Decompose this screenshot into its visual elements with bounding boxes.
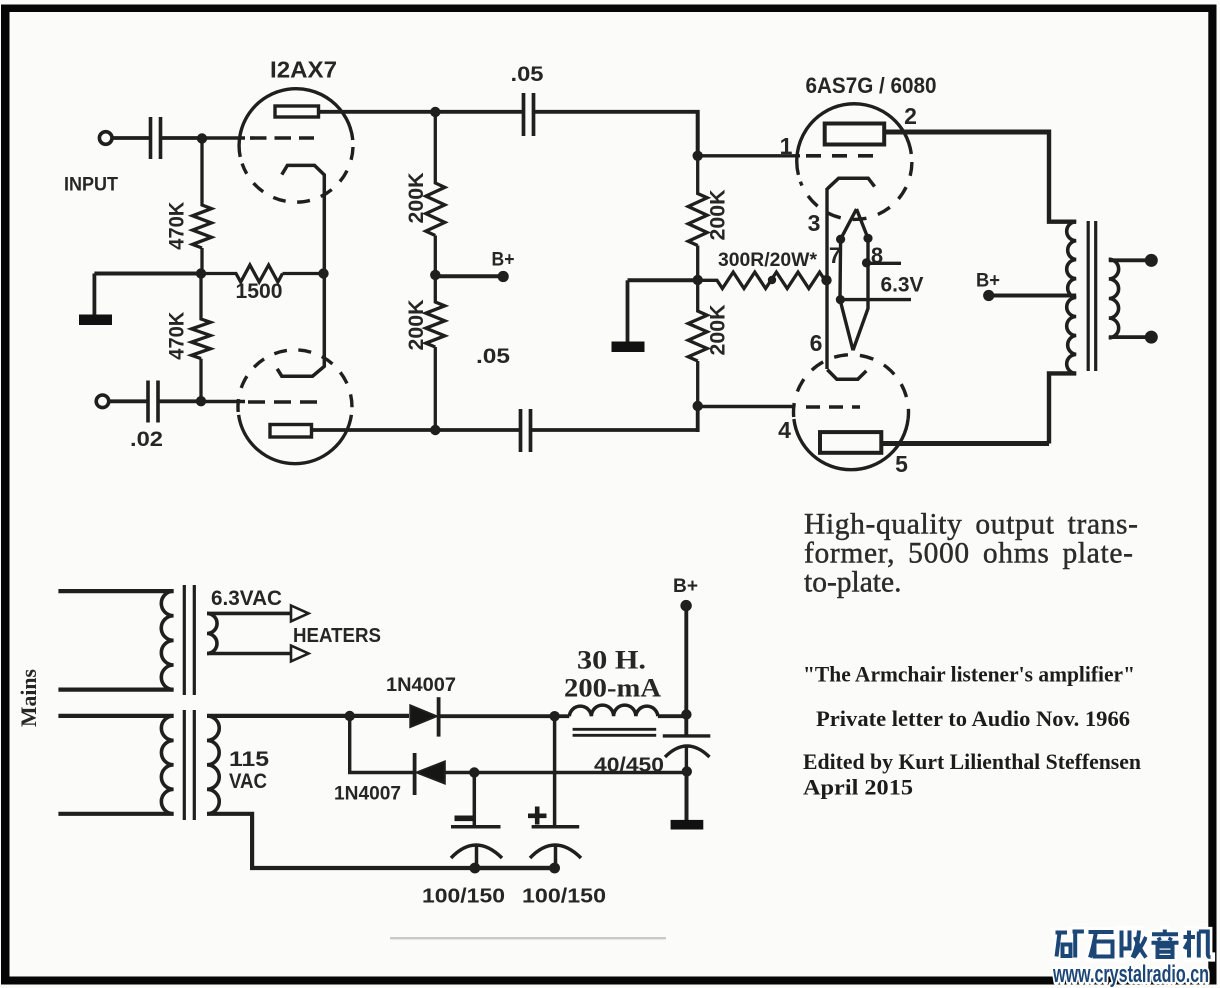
node cathode V1 junction	[318, 268, 328, 278]
resistor R2 1500 (cathode bias)	[201, 265, 324, 282]
svg-text:1: 1	[780, 133, 793, 159]
value label 200K (R6)	[707, 190, 730, 241]
pin label 4	[778, 417, 791, 443]
wire node to choke	[555, 714, 570, 718]
svg-text:B+: B+	[976, 271, 1000, 292]
label B+ (supply)	[673, 575, 698, 597]
wire C3 to corner	[535, 110, 700, 114]
note: amplifier title and credits	[803, 662, 1141, 800]
grid V1A dashed	[250, 136, 314, 140]
wire C4 to corner	[532, 428, 700, 432]
svg-text:6.3VAC: 6.3VAC	[211, 587, 282, 610]
svg-text:200K: 200K	[707, 305, 730, 356]
svg-text:200K: 200K	[707, 190, 730, 241]
svg-text:INPUT: INPUT	[64, 174, 118, 196]
label 115	[229, 748, 269, 771]
wire corner down to grid node V2A	[696, 110, 700, 156]
capacitor C1 .02 coupling (upper input)	[151, 117, 161, 159]
svg-text:5: 5	[895, 451, 908, 477]
svg-text:1N4007: 1N4007	[334, 784, 401, 805]
node C5 top junction	[469, 767, 479, 777]
node mid 300R blob	[768, 276, 776, 284]
value label .05 (upper C3)	[511, 62, 544, 86]
value label 470K (R1)	[166, 202, 189, 250]
wire heater lead top	[207, 612, 291, 616]
node C5 bottom junction	[470, 863, 481, 874]
value label 1500 (R2)	[236, 280, 283, 303]
wire mains lead T2 top	[58, 589, 173, 593]
capacitor C7 40/450	[663, 736, 711, 771]
wire C1 to grid node	[162, 136, 200, 140]
wire cathode junction to V2B (pin 6)	[825, 280, 828, 369]
cathode V1A	[282, 165, 325, 273]
triode V2B (6AS7G lower half) envelope and plate	[794, 355, 909, 470]
value label 300R/20W*	[718, 250, 818, 271]
svg-text:I2AX7: I2AX7	[270, 57, 337, 83]
resistor R8 200K (lower right)	[688, 280, 707, 406]
svg-text:2: 2	[904, 103, 917, 129]
inductor L1 choke 30H	[569, 705, 658, 716]
svg-text:200K: 200K	[405, 173, 428, 224]
capacitor C5 100/150 (negative)	[451, 773, 502, 869]
cathode V1B	[277, 274, 324, 377]
output terminal (bottom)	[1145, 331, 1158, 344]
resistor R4 200K (upper left)	[426, 112, 445, 275]
svg-text:.02: .02	[130, 428, 163, 451]
arrow heater top	[291, 606, 309, 622]
B+ terminal (driver)	[498, 271, 509, 282]
wire plate V1A to node A	[319, 110, 434, 114]
svg-text:6: 6	[810, 330, 823, 356]
svg-text:.05: .05	[511, 62, 544, 86]
pin label 3	[808, 210, 821, 236]
value label 1N4007 (D1)	[386, 675, 456, 696]
svg-text:115: 115	[229, 748, 269, 771]
ground (input stage)	[79, 274, 112, 326]
wire secondary top to rectifier	[207, 714, 409, 718]
wire C2 to grid node	[160, 399, 200, 403]
node filter input junction	[549, 711, 559, 721]
label 6.3VAC	[211, 587, 282, 610]
value label 30 H.	[577, 646, 646, 675]
wire to D2	[350, 716, 413, 773]
value label .05 (lower C4)	[476, 344, 510, 368]
capacitor C2 .02 coupling (lower input)	[148, 381, 158, 423]
pin label 7	[829, 243, 841, 268]
wire J1 to C1	[113, 136, 151, 140]
node bias junction	[196, 268, 206, 278]
node B+ divider junction	[430, 270, 440, 280]
tube label I2AX7	[270, 57, 337, 83]
triode V1A (12AX7 upper half) envelope and plate	[239, 89, 353, 202]
wire heater lead bottom	[207, 652, 291, 656]
B+ terminal (supply)	[680, 600, 691, 611]
svg-text:6AS7G / 6080: 6AS7G / 6080	[806, 73, 937, 98]
wire node A to C3	[436, 110, 523, 114]
transformer T2 primary winding	[161, 591, 173, 690]
svg-text:.05: .05	[476, 344, 510, 368]
node grid V1B junction	[196, 396, 206, 406]
svg-text:4: 4	[778, 417, 791, 443]
label Mains	[16, 669, 41, 727]
wire lower node to C4	[436, 428, 520, 432]
pin label 5	[895, 451, 908, 477]
wire transformer primary bottom lead	[1049, 373, 1076, 443]
wire 6.3V stub upper	[868, 262, 901, 265]
node A plate V1A junction	[430, 107, 440, 117]
polarity label + (C6)	[528, 807, 547, 825]
B+ terminal (output transformer)	[983, 290, 994, 301]
svg-text:40/450: 40/450	[594, 754, 664, 777]
resistor R6 200K (upper right)	[688, 156, 707, 280]
wire choke to B+ node	[658, 714, 687, 718]
wire J2 to C2	[109, 399, 147, 403]
svg-text:1500: 1500	[236, 280, 283, 303]
svg-text:VAC: VAC	[229, 770, 267, 793]
capacitor C6 100/150 (positive)	[530, 716, 581, 868]
grid V2B dashed	[806, 405, 860, 409]
value label 40/450 (C7)	[594, 754, 664, 777]
wire cathode V2A down (pin 3)	[825, 188, 828, 280]
transformer T1 primary winding	[1067, 222, 1077, 374]
node heater pin 7 top	[836, 235, 845, 244]
svg-text:470K: 470K	[166, 202, 189, 250]
grid V1B dashed	[248, 400, 319, 404]
svg-text:7: 7	[829, 243, 841, 268]
wire divider to B+ terminal	[435, 274, 500, 278]
wire grid node to V1A grid	[202, 136, 245, 139]
pin label 2	[904, 103, 917, 129]
svg-text:30 H.: 30 H.	[577, 646, 646, 675]
arrow heater bottom	[291, 646, 309, 662]
triode V1B (12AX7 lower half) envelope and plate	[238, 350, 352, 464]
wire junction to ground riser	[628, 278, 698, 282]
transformer T3 secondary winding (115VAC)	[207, 716, 219, 814]
label B+ (driver)	[492, 250, 515, 271]
watermark crystalradio logo	[1056, 930, 1211, 958]
ground (power supply)	[671, 772, 704, 830]
value label .02 (C2)	[130, 428, 163, 451]
pin label 8	[871, 243, 883, 268]
transformer T3 primary winding	[161, 716, 173, 814]
cathode V2A	[827, 178, 874, 189]
capacitor C3 .05 (upper coupling)	[524, 93, 534, 136]
value label 200-mA	[564, 674, 661, 703]
wire secondary bottom return	[207, 814, 553, 868]
value label 470K (R3)	[166, 312, 189, 360]
transformer T1 secondary winding	[1109, 259, 1119, 338]
svg-text:Mains: Mains	[16, 669, 41, 727]
choke core bars	[573, 729, 657, 735]
svg-text:3: 3	[808, 210, 821, 236]
wire B+ riser	[684, 606, 688, 735]
node choke output junction	[681, 709, 691, 719]
node heater 6.3V tap lower	[836, 295, 845, 304]
transformer T3 core	[184, 710, 194, 820]
wire caps bottom link	[475, 866, 555, 870]
wire grid node to V1B grid	[201, 400, 245, 403]
svg-text:470K: 470K	[166, 312, 189, 360]
output terminal (top)	[1145, 254, 1158, 267]
transformer T2 core	[184, 585, 194, 695]
heater filament structure V2	[840, 209, 868, 350]
value label 200K (R4)	[405, 173, 428, 224]
capacitor C4 .05 (lower coupling)	[521, 409, 531, 452]
wire grid node to V2B grid	[698, 405, 795, 408]
transformer T1 core	[1088, 221, 1096, 371]
value label 100/150 (C5)	[422, 885, 505, 908]
node grid V1A junction	[197, 133, 207, 143]
polarity label - (C5)	[455, 816, 475, 822]
wire mains lead T3 bottom	[58, 812, 173, 816]
node grid V2A junction	[693, 151, 703, 161]
label VAC	[229, 770, 267, 793]
value label 1N4007 (D2)	[334, 784, 401, 805]
node rectifier input junction	[345, 711, 355, 721]
node heater 6.3V tap upper	[862, 258, 871, 267]
transformer T2 secondary winding (6.3VAC)	[207, 613, 217, 653]
diode D1 1N4007 (upper)	[410, 697, 438, 736]
wire B+ to center tap	[989, 294, 1076, 298]
diode D2 1N4007 (lower)	[415, 753, 445, 795]
label HEATERS	[293, 625, 381, 647]
resistor R1 470K (upper)	[193, 138, 212, 274]
wire transformer primary top lead	[1049, 130, 1076, 222]
note: high-quality output transformer	[804, 509, 1138, 599]
pin label 1	[780, 133, 793, 159]
resistor R5 200K (lower left)	[426, 275, 445, 430]
wire 6.3V stub lower	[840, 298, 911, 301]
wire plate V1B to lower node	[312, 428, 434, 432]
value label 200K (R8)	[707, 305, 730, 356]
value label 100/150 (C6)	[522, 885, 606, 908]
value label 200K (R5)	[405, 300, 428, 351]
wire plate V2A to transformer	[885, 130, 1050, 135]
ground (output stage)	[612, 280, 645, 352]
watermark url www.crystalradio.cn	[1052, 961, 1209, 988]
node plate V1B junction	[430, 425, 440, 435]
node cathode V2 junction	[821, 275, 831, 285]
wire secondary top lead	[1109, 258, 1148, 262]
resistor R7 300R/20W cathode	[698, 272, 825, 288]
node C7 bottom junction	[682, 766, 692, 776]
input terminal J1 (upper)	[99, 132, 112, 145]
wire mains lead T2 bottom	[58, 687, 173, 691]
svg-text:B+: B+	[492, 250, 515, 271]
svg-text:HEATERS: HEATERS	[293, 625, 381, 647]
svg-text:100/150: 100/150	[522, 885, 606, 908]
label B+ (output)	[976, 271, 1000, 292]
resistor R3 470K (lower)	[192, 274, 211, 402]
grid V2A dashed	[806, 154, 874, 158]
input terminal J2 (lower)	[96, 395, 109, 408]
node C6 bottom junction	[549, 863, 560, 874]
svg-text:300R/20W*: 300R/20W*	[718, 250, 818, 271]
wire mains lead T3 top	[58, 714, 173, 718]
label INPUT	[64, 174, 118, 196]
tube label 6AS7G / 6080	[806, 73, 937, 98]
wire grid node to V2A grid	[698, 154, 800, 157]
node grid V2B junction	[693, 401, 703, 411]
triode V2A (6AS7G upper half) envelope and plate	[797, 104, 912, 220]
wire secondary bottom lead	[1109, 335, 1148, 339]
wire D1 to filter node	[440, 714, 553, 718]
svg-text:www.crystalradio.cn: www.crystalradio.cn	[1052, 961, 1209, 988]
wire corner up to grid node V2B	[696, 406, 700, 432]
wire D2 to negative rail	[445, 771, 687, 774]
wire bias node to ground	[94, 272, 201, 276]
svg-text:100/150: 100/150	[422, 885, 505, 908]
node heater pin 8 top	[863, 234, 872, 243]
svg-text:200-mA: 200-mA	[564, 674, 661, 703]
label 6.3V	[881, 274, 924, 297]
svg-text:1N4007: 1N4007	[386, 675, 456, 696]
svg-text:B+: B+	[673, 575, 698, 597]
pin label 6	[810, 330, 823, 356]
svg-text:6.3V: 6.3V	[881, 274, 924, 297]
wire plate V2B to transformer	[882, 441, 1050, 446]
cathode V2B	[827, 370, 866, 380]
svg-text:200K: 200K	[405, 300, 428, 351]
node grid-leak junction	[693, 275, 703, 285]
